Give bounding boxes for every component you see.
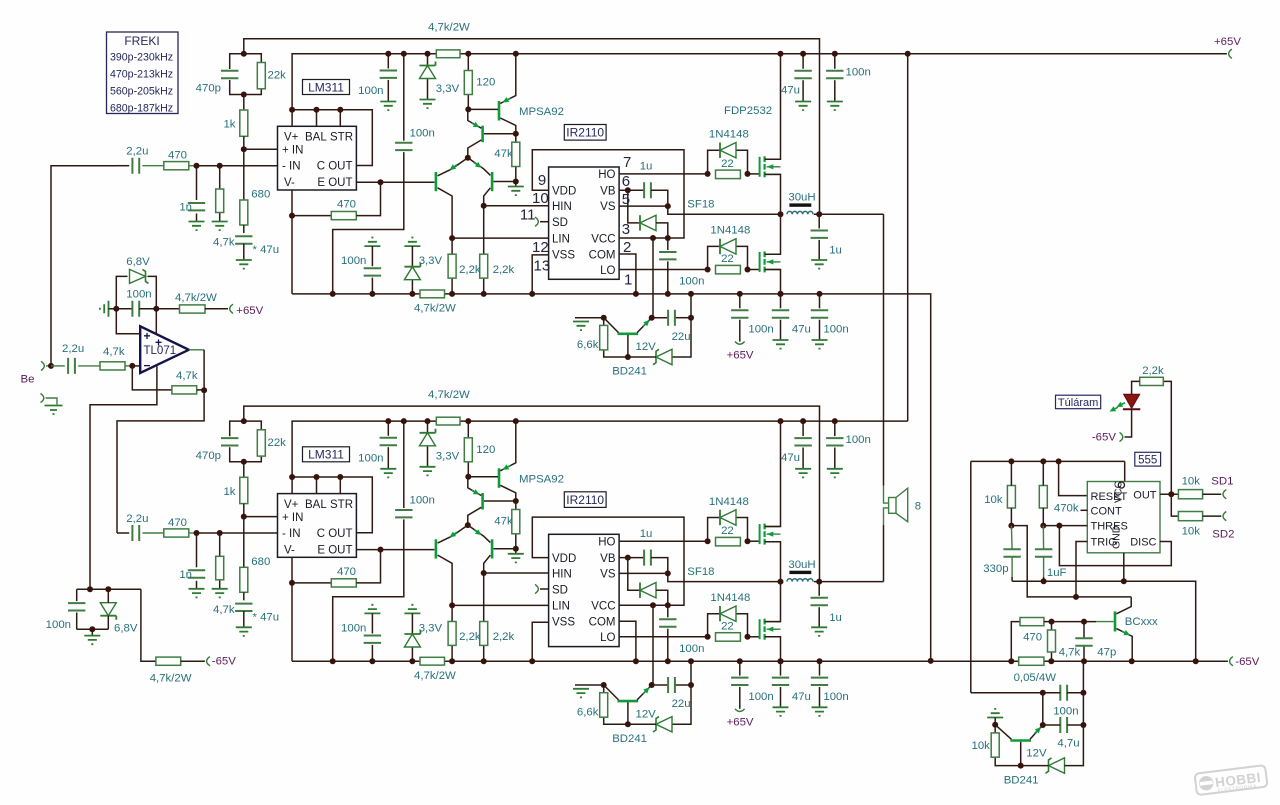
- junction 470p/22k bottom (channel B): [241, 459, 247, 465]
- svg-text:6: 6: [622, 173, 630, 190]
- wire lower cap3 (channel B): [819, 661, 821, 675]
- wire DISC wrap: [1059, 526, 1171, 566]
- svg-text:1uF: 1uF: [1047, 567, 1067, 579]
- svg-text:2,2u: 2,2u: [126, 513, 148, 525]
- wire LM311 top pins rail (channel A): [291, 110, 293, 127]
- resistor 470 comparator fb (channel B): [331, 579, 356, 587]
- ground 47u rail (channel B): [795, 469, 811, 478]
- svg-text:390p-230kHz: 390p-230kHz: [110, 52, 173, 64]
- resistor 4,7k TL071 in: [100, 362, 125, 370]
- capacitor 100n rail (channel B): [826, 438, 843, 445]
- svg-text:COM: COM: [589, 617, 616, 629]
- ground under 47u (channel A): [236, 260, 252, 269]
- wire 4,7u reg2: [1043, 724, 1061, 726]
- label box LM311 (channel A): [303, 80, 350, 95]
- terminal input ground: [41, 393, 44, 402]
- svg-text:100n: 100n: [358, 452, 383, 464]
- svg-text:470p: 470p: [196, 83, 221, 95]
- svg-text:1u: 1u: [829, 245, 842, 257]
- svg-text:SD1: SD1: [1211, 476, 1233, 488]
- wire +65V rail (channel A): [292, 54, 860, 110]
- resistor 4,7k divider (channel B): [216, 556, 224, 580]
- junction 4,7u left: [1040, 722, 1046, 728]
- wire 1uF: [1042, 526, 1044, 550]
- junction 4,7k tap (channel B): [217, 530, 223, 536]
- wire 470p/22k frame (channel B): [230, 421, 262, 436]
- svg-text:47u: 47u: [792, 324, 811, 336]
- junction clamp right: [153, 306, 159, 312]
- wire diff emitter left (channel A): [438, 158, 468, 176]
- junction BD241b base: [1018, 763, 1024, 769]
- wire VS (channel A): [619, 205, 668, 207]
- resistor 22k (channel B): [257, 430, 265, 456]
- wire high drain (channel B): [765, 421, 781, 526]
- wire LO gate frame (channel B): [708, 614, 720, 637]
- resistor 4,7k/2W rail series (channel A): [420, 290, 445, 298]
- svg-text:30uH: 30uH: [788, 559, 815, 571]
- wire 680 to 47u (channel B): [243, 592, 245, 600]
- svg-text:100n: 100n: [341, 255, 366, 267]
- terminal -65V right: [1230, 657, 1233, 666]
- svg-text:- IN: - IN: [282, 528, 301, 540]
- mosfet high side (channel B): [759, 524, 761, 544]
- svg-text:10k: 10k: [1182, 476, 1201, 488]
- wire 10k BD241b: [994, 725, 996, 733]
- junction VS (channel A): [665, 203, 671, 209]
- junction 100n chain top (channel B): [401, 418, 407, 424]
- terminal +65V TL071: [230, 304, 233, 313]
- ground inverted BD241b: [987, 709, 1003, 718]
- junction LIN node (channel B): [449, 602, 455, 608]
- label box Tularam: [1056, 395, 1101, 409]
- svg-text:22: 22: [721, 158, 734, 170]
- svg-text:LM311: LM311: [308, 80, 344, 94]
- junction 470p/22k bottom (channel A): [241, 92, 247, 98]
- resistor 22 low (channel A): [716, 265, 741, 274]
- wire BCxxx emitter: [1116, 629, 1132, 662]
- svg-text:470: 470: [1023, 632, 1042, 644]
- wire Q4 base (channel A): [494, 181, 516, 183]
- svg-text:100n: 100n: [410, 495, 435, 507]
- junction 100n rail (channel B): [832, 418, 838, 424]
- inductor 30uH core (channel B): [789, 571, 811, 574]
- junction +IN node (channel B): [241, 514, 247, 520]
- junction VCC-reg (channel A): [650, 235, 656, 241]
- wire 470 fb right (channel A): [356, 182, 380, 215]
- junction LO right (channel B): [745, 634, 751, 640]
- svg-text:4,7k/2W: 4,7k/2W: [414, 670, 456, 682]
- junction 100n VCC rail (channel A): [665, 291, 671, 297]
- junction 47k bottom (channel B): [513, 546, 519, 552]
- svg-text:470: 470: [168, 150, 187, 162]
- junction Be split: [48, 363, 54, 369]
- junction 100n3 rail (channel B): [369, 658, 375, 664]
- wire BD241b emitter: [1030, 725, 1043, 739]
- capacitor 100n clamp2: [68, 603, 85, 610]
- ground zener1 (channel B): [420, 467, 436, 476]
- wire BD241b base: [1020, 742, 1022, 766]
- junction 2,2k right rail (channel A): [481, 291, 487, 297]
- junction HO left (channel B): [705, 538, 711, 544]
- table FREKI box: [107, 32, 179, 114]
- junction BD241 base (channel A): [625, 354, 631, 360]
- svg-text:+ IN: + IN: [282, 145, 303, 157]
- svg-text:1u: 1u: [829, 612, 842, 624]
- wire BD241 collector (channel B): [604, 685, 619, 700]
- wire sense 470: [1011, 622, 1020, 662]
- svg-text:0,05/4W: 0,05/4W: [1014, 672, 1057, 684]
- svg-text:GND: GND: [1111, 525, 1123, 549]
- svg-text:C OUT: C OUT: [317, 528, 353, 540]
- junction switch node (channel B): [778, 579, 784, 585]
- wire VCC 100n (channel A): [667, 238, 669, 250]
- zener 6,8V TL071: [130, 269, 146, 283]
- junction LO right (channel A): [745, 267, 751, 273]
- svg-text:10: 10: [532, 190, 549, 207]
- resistor 22 high (channel A): [716, 170, 741, 179]
- wire feedback net (channel B): [244, 406, 820, 581]
- wire V- to rail (channel A): [291, 190, 293, 294]
- wire feedback net (channel A): [244, 39, 820, 215]
- capacitor 470p (channel B): [221, 438, 238, 445]
- svg-text:MPSA92: MPSA92: [519, 473, 564, 485]
- wire zener2 (channel A): [411, 246, 413, 267]
- wire 555 V+ line: [971, 460, 1125, 462]
- wire VCC 100n (channel B): [667, 605, 669, 617]
- wire -IN line (channel A): [117, 165, 129, 167]
- junction GND line -65V: [1193, 658, 1199, 664]
- svg-text:560p-205kHz: 560p-205kHz: [110, 86, 173, 98]
- wire output 1u (channel A): [818, 214, 820, 228]
- diode 1N4148 high (channel B): [720, 510, 736, 525]
- junction Q1 emitter rail (channel B): [513, 418, 519, 424]
- wire Q2 emitter (channel B): [468, 477, 482, 496]
- junction 120 bottom (channel A): [465, 106, 471, 112]
- mosfet low side (channel A): [759, 252, 761, 272]
- junction HO left (channel A): [705, 171, 711, 177]
- capacitor 2,2u input (channel A): [132, 158, 139, 174]
- wire VB (channel A): [619, 189, 643, 191]
- terminal +65V lower (channel B): [735, 709, 745, 712]
- wire 47u rail (channel A): [802, 54, 804, 69]
- svg-text:1N4148: 1N4148: [709, 129, 749, 141]
- svg-text:470k: 470k: [1054, 503, 1079, 515]
- svg-text:7: 7: [623, 154, 631, 171]
- junction GND pin: [1121, 578, 1127, 584]
- capacitor *47u (channel B): [235, 604, 252, 611]
- capacitor 100n VCC (channel A): [659, 252, 676, 259]
- mosfet low side (channel B): [759, 619, 761, 639]
- zener 3,3V rail (channel B): [420, 433, 436, 446]
- junction VB (channel A): [625, 187, 631, 193]
- junction V- 470 tap (channel B): [289, 580, 295, 586]
- junction 100n VCC rail (channel B): [665, 658, 671, 664]
- wire OUT to LED: [1163, 381, 1171, 494]
- ground left TL071: [100, 301, 109, 317]
- junction switch node (channel A): [778, 211, 784, 217]
- wire 47u to ground (channel A): [243, 244, 245, 260]
- wire 6,6k (channel A): [603, 318, 605, 326]
- mosfet high side (channel A): [759, 157, 761, 177]
- wire LO (channel A): [619, 269, 708, 271]
- svg-text:Be: Be: [21, 374, 35, 386]
- svg-text:4,7k/2W: 4,7k/2W: [414, 303, 456, 315]
- resistor 470k: [1039, 486, 1047, 509]
- ground inverted zener2 (channel B): [404, 605, 420, 614]
- wire 12V b: [1019, 765, 1049, 767]
- svg-text:VCC: VCC: [1113, 480, 1125, 503]
- comparator LM311 box (channel B): [278, 494, 357, 558]
- junction BCxxx emitter: [1129, 658, 1135, 664]
- label box IR2110 (channel B): [564, 492, 606, 508]
- arrow Q3 emitter (channel A): [448, 163, 459, 173]
- junction BD241 emitter (channel B): [649, 682, 655, 688]
- arrow BD241 emitter (channel A): [641, 318, 651, 328]
- junction zener1 (channel A): [425, 51, 431, 57]
- resistor 4,7k/2W TL071: [180, 305, 206, 313]
- junction 100n reg2 right: [1080, 690, 1086, 696]
- wire TL071 V- route: [90, 366, 157, 589]
- ground input: [45, 406, 63, 415]
- zener 12V (channel B): [656, 717, 672, 732]
- ground 47u lower (channel A): [773, 340, 789, 349]
- wire GND line 555: [1012, 581, 1196, 661]
- svg-text:5: 5: [622, 191, 630, 208]
- wire 100n chain (channel B): [403, 421, 405, 508]
- junction 1n tap (channel B): [194, 530, 200, 536]
- wire SF18 cathode (channel A): [628, 190, 640, 223]
- svg-text:MPSA92: MPSA92: [519, 106, 564, 118]
- junction zener2 rail (channel B): [409, 658, 415, 664]
- wire LM311 top pins rail (channel B): [291, 477, 293, 494]
- wire 47u rail (channel B): [802, 421, 804, 436]
- svg-text:SD2: SD2: [1212, 529, 1234, 541]
- svg-text:22: 22: [721, 253, 734, 265]
- svg-text:1n: 1n: [179, 569, 192, 581]
- wire Q3 collector (channel B): [438, 555, 453, 605]
- wire +65V rail to terminal: [860, 53, 1227, 55]
- junction E OUT 470 tap (channel B): [378, 547, 384, 553]
- resistor 680 (channel B): [240, 567, 248, 592]
- wire LIN (channel A): [452, 237, 548, 239]
- junction VS (channel B): [665, 570, 671, 576]
- transistor Q3 bar (channel A): [435, 172, 438, 191]
- arrow Q1 emitter (channel A): [501, 96, 512, 105]
- ground 100n lower3 (channel B): [812, 707, 828, 716]
- svg-text:4,7k: 4,7k: [213, 604, 235, 616]
- junction BD241 collector node (channel A): [601, 315, 607, 321]
- terminal -65V left: [207, 657, 210, 666]
- terminal SD open (channel B): [535, 584, 538, 593]
- svg-text:22u: 22u: [672, 331, 691, 343]
- wire OUT to SD2: [1171, 494, 1178, 516]
- wire Q1 base (channel B): [468, 476, 498, 478]
- junction 470p/22k top (channel B): [241, 418, 247, 424]
- wire Q2 emitter (channel A): [468, 109, 482, 128]
- svg-text:4,7k: 4,7k: [213, 237, 235, 249]
- svg-text:* 47u: * 47u: [253, 611, 280, 623]
- resistor 2,2k left (channel B): [448, 622, 456, 646]
- resistor 6,6k (channel B): [600, 693, 608, 718]
- resistor 4,7k/2W neg: [156, 657, 181, 665]
- junction COM rail (channel A): [633, 291, 639, 297]
- junction 470p/22k top (channel A): [241, 51, 247, 57]
- svg-text:1N4148: 1N4148: [710, 592, 750, 604]
- zener 3,3V lower (channel B): [404, 634, 420, 647]
- svg-text:3,3V: 3,3V: [419, 622, 443, 634]
- wire HO (channel B): [619, 540, 708, 542]
- wire lower cap1 (channel B): [739, 661, 741, 675]
- transistor BCxxx bar: [1114, 611, 1117, 631]
- wire high source (channel B): [765, 542, 781, 582]
- junction TRIG: [1073, 594, 1079, 600]
- wire +IN to 680 (channel A): [243, 149, 245, 200]
- transistor BD241 bar (channel A): [618, 332, 639, 335]
- svg-text:4,7k/2W: 4,7k/2W: [428, 389, 470, 401]
- wire Q4 collector (channel A): [484, 188, 491, 206]
- junction TL071 -in: [129, 363, 135, 369]
- wire VDD-VCC loop (channel A): [532, 150, 684, 238]
- wire CONT stub: [1081, 509, 1088, 511]
- resistor 10k SD2: [1178, 512, 1202, 521]
- svg-text:30uH: 30uH: [788, 192, 815, 204]
- junction high drain rail (channel B): [778, 418, 784, 424]
- junction reset top: [1056, 458, 1062, 464]
- svg-text:100n: 100n: [679, 276, 704, 288]
- diode 1N4148 low (channel B): [720, 606, 736, 621]
- diode SF18 (channel A): [640, 215, 656, 230]
- ground inverted zener2 (channel A): [404, 238, 420, 247]
- arrow Q3 emitter (channel B): [448, 530, 459, 540]
- junction shunt right: [1048, 658, 1054, 664]
- junction clamp left: [113, 306, 119, 312]
- wire 330p: [1010, 526, 1013, 550]
- wire 4,7k to -in: [125, 365, 132, 367]
- ground 47k (channel B): [508, 554, 524, 563]
- wire diff emitter left (channel B): [438, 525, 468, 543]
- svg-text:12V: 12V: [636, 708, 657, 720]
- svg-text:−: −: [144, 359, 151, 373]
- wire BD241 collector (channel A): [604, 318, 619, 333]
- svg-text:+65V: +65V: [727, 349, 754, 361]
- wire output node (channel B): [814, 581, 884, 583]
- wire THRES line: [1011, 526, 1027, 598]
- wire 555 supply down: [971, 692, 1043, 694]
- wire 4,7k branch (channel A): [219, 166, 221, 189]
- svg-text:11: 11: [520, 207, 536, 224]
- wire lower cap1 (channel A): [739, 294, 741, 308]
- svg-text:SF18: SF18: [687, 566, 714, 578]
- svg-text:100n: 100n: [846, 67, 871, 79]
- svg-text:BD241: BD241: [1004, 774, 1039, 786]
- junction THRES 10k: [1008, 523, 1014, 529]
- wire 47u to ground (channel B): [243, 611, 245, 627]
- wire -IN line (channel B): [117, 532, 129, 534]
- svg-text:100n: 100n: [679, 643, 704, 655]
- junction +65V feed: [905, 51, 911, 57]
- wire SF18 anode (channel A): [656, 223, 668, 238]
- resistor 4,7k/2W rail series (channel B): [420, 657, 445, 665]
- junction low source rail (channel B): [778, 658, 784, 664]
- svg-text:22k: 22k: [268, 70, 287, 82]
- svg-text:OUT: OUT: [1133, 490, 1157, 502]
- driver IR2110 box (channel A): [549, 167, 620, 279]
- svg-text:CONT: CONT: [1091, 506, 1122, 518]
- wire LO gate frame (channel A): [708, 246, 720, 269]
- svg-text:2: 2: [623, 239, 631, 256]
- svg-text:VSS: VSS: [552, 617, 575, 629]
- svg-text:+65V: +65V: [727, 717, 754, 729]
- junction shunt left: [1008, 658, 1014, 664]
- resistor 4,7k divider (channel A): [216, 189, 224, 213]
- junction HIN node (channel B): [481, 570, 487, 576]
- junction 120 top (channel B): [465, 418, 471, 424]
- junction BD241 collector node (channel B): [601, 682, 607, 688]
- wire TRIG: [1076, 542, 1087, 597]
- junction diff emitters (channel A): [465, 155, 471, 161]
- svg-text:HO: HO: [598, 169, 615, 181]
- capacitor 1uF: [1035, 549, 1052, 556]
- svg-text:100n: 100n: [1053, 706, 1078, 718]
- wire feedback down: [132, 366, 172, 390]
- wire low source (channel A): [765, 270, 781, 294]
- svg-text:470: 470: [337, 199, 356, 211]
- junction BD241 base (channel B): [625, 721, 631, 727]
- wire VS to output (channel A): [668, 206, 781, 214]
- svg-text:VDD: VDD: [552, 553, 576, 565]
- capacitor 100n VCC (channel B): [659, 619, 676, 626]
- junction VCC-SF18 (channel A): [665, 235, 671, 241]
- transistor Q4 bar (channel B): [491, 539, 494, 558]
- svg-text:12V: 12V: [636, 341, 657, 353]
- transistor BD241 bar (channel B): [618, 700, 639, 703]
- junction 22u right (channel A): [688, 315, 694, 321]
- capacitor 47u lower (channel A): [772, 310, 789, 317]
- ground under 47u (channel B): [236, 627, 252, 636]
- svg-text:Túláram: Túláram: [1058, 397, 1098, 409]
- wire 100n3 (channel B): [371, 613, 373, 633]
- ground 100n rail (channel B): [827, 469, 843, 478]
- svg-text:BAL: BAL: [305, 499, 327, 511]
- wire VS to output (channel B): [668, 573, 781, 581]
- junction zener1 (channel B): [425, 418, 431, 424]
- terminal Be: [41, 361, 44, 370]
- svg-text:VCC: VCC: [591, 601, 615, 613]
- resistor 10k 555: [1007, 486, 1015, 509]
- junction output (channel B): [816, 579, 822, 585]
- svg-text:BAL: BAL: [305, 132, 327, 144]
- wire LIN (channel B): [452, 604, 548, 606]
- svg-text:* 47u: * 47u: [253, 244, 280, 256]
- svg-text:1k: 1k: [223, 119, 235, 131]
- svg-text:BCxxx: BCxxx: [1125, 616, 1158, 628]
- wire clamp2 to -65V: [141, 589, 156, 661]
- wire 1k to +IN (channel B): [244, 504, 278, 517]
- junction VB (channel B): [625, 555, 631, 561]
- resistor 470 input (channel A): [164, 162, 189, 170]
- ground 47u rail (channel A): [795, 102, 811, 111]
- ground 47u lower (channel B): [773, 707, 789, 716]
- resistor 120 (channel A): [464, 71, 472, 95]
- junction LO left (channel B): [705, 634, 711, 640]
- junction V- node: [87, 586, 93, 592]
- ground zener1 (channel A): [420, 100, 436, 109]
- svg-text:4,7k/2W: 4,7k/2W: [175, 292, 217, 304]
- svg-text:470: 470: [168, 517, 187, 529]
- wire Q4 collector (channel B): [484, 555, 491, 573]
- wire +IN to 680 (channel B): [243, 517, 245, 568]
- svg-text:10k: 10k: [1182, 526, 1201, 538]
